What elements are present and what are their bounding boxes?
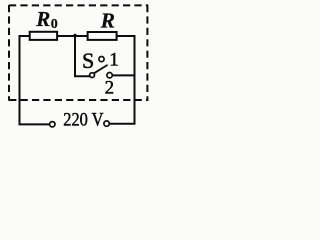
- svg-text:S: S: [82, 48, 94, 73]
- svg-text:2: 2: [105, 78, 115, 99]
- resistor R: [88, 32, 117, 40]
- switch lever: [94, 65, 108, 73]
- terminal circle left: [50, 122, 55, 127]
- dashed enclosure: [9, 5, 148, 101]
- wire from junction down to switch common: [75, 36, 90, 76]
- switch contact 1: [99, 57, 104, 62]
- wire top segment between R0 and R: [57, 35, 88, 37]
- wire right branch (top-right, right rail, bottom-right): [110, 36, 135, 124]
- wire left branch (top-left, left rail, bottom-left): [20, 36, 50, 124]
- switch contact 2: [107, 73, 112, 78]
- terminal circle right: [104, 121, 109, 126]
- svg-text:220 V: 220 V: [63, 111, 104, 131]
- wire contact 2 to right rail: [112, 74, 134, 76]
- svg-text:R: R: [35, 7, 50, 31]
- svg-text:R: R: [100, 8, 115, 32]
- svg-text:1: 1: [109, 49, 119, 70]
- junction node: [73, 34, 76, 37]
- switch S common terminal: [90, 73, 95, 78]
- resistor R0: [30, 32, 57, 40]
- svg-text:0: 0: [51, 17, 58, 32]
